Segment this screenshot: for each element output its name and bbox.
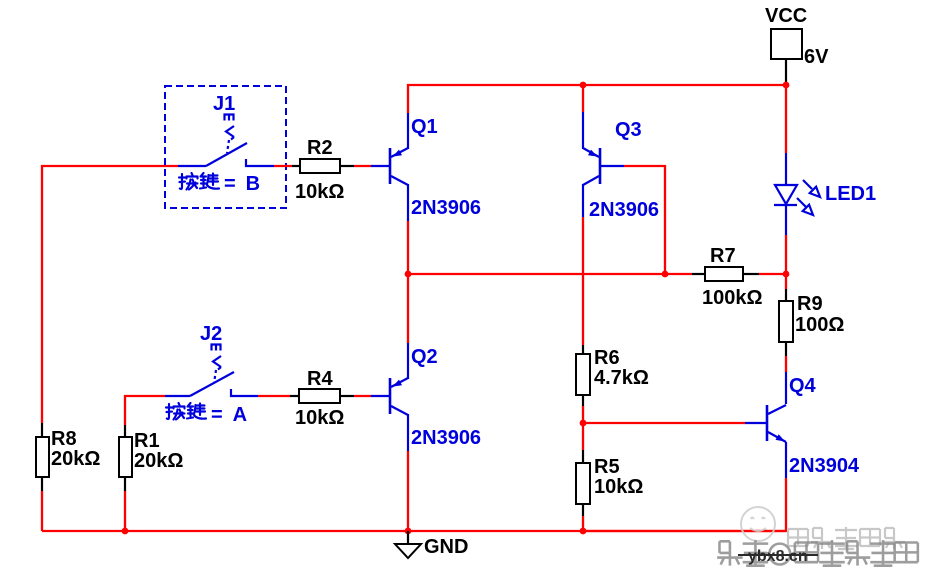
svg-text:2N3906: 2N3906 [589, 199, 659, 221]
svg-text:10kΩ: 10kΩ [295, 181, 344, 203]
junction: top rail / VCC / LED branch [783, 82, 790, 89]
wire: R1 bottom to ground rail [124, 491, 126, 531]
label J2 按键 = A [166, 403, 206, 420]
svg-text:10kΩ: 10kΩ [594, 476, 643, 498]
svg-text:R7: R7 [710, 245, 736, 267]
svg-text:J2: J2 [200, 323, 222, 345]
wire: R8 bottom to ground rail [41, 491, 43, 531]
transistor Q2 (PNP) [371, 343, 408, 451]
switch J1 pushbutton [178, 115, 274, 167]
wire: Q2 collector down to ground rail [407, 451, 409, 531]
svg-text:2N3906: 2N3906 [411, 427, 481, 449]
svg-text:R6: R6 [594, 347, 620, 369]
wire: Q3 base over and down to mid rail [624, 166, 665, 274]
junction: LED column / R7 [783, 271, 790, 278]
svg-text:10kΩ: 10kΩ [295, 407, 344, 429]
transistor Q4 (NPN) [745, 372, 786, 478]
svg-text:J1: J1 [213, 93, 235, 115]
wire: left net from J1 down the left edge [42, 166, 178, 423]
svg-text:2N3906: 2N3906 [411, 197, 481, 219]
transistor Q3 (PNP mirrored) [583, 112, 624, 217]
wire: R2 to Q1 base [354, 165, 371, 167]
wire: J2 branch from R1 top [125, 396, 165, 425]
wire: Q3 emitter up to top rail [582, 85, 584, 112]
svg-text:6V: 6V [804, 46, 829, 68]
junction: ground rail / R5 [580, 528, 587, 535]
wire: R4 to Q2 base [354, 395, 371, 397]
svg-text:= B: = B [224, 173, 260, 195]
wire: mid rail Q1 collector to R7 [408, 273, 692, 275]
wire: J1 to R2 [274, 165, 292, 167]
junction: top rail / Q3 emitter [580, 82, 587, 89]
svg-text:100kΩ: 100kΩ [702, 287, 763, 309]
svg-text:R9: R9 [797, 293, 823, 315]
wire: R6 to R5 through Q4 base node [582, 406, 584, 450]
wire: Q4 emitter down to ground rail corner [583, 478, 786, 531]
resistor R4 [290, 389, 354, 403]
wire: VCC net top rail with Q1 emitter feed [408, 85, 786, 113]
watermark: 头条@硬件大不同 [717, 540, 918, 566]
svg-text:LED1: LED1 [825, 183, 876, 205]
wire: R5 bottom to ground rail [582, 516, 584, 531]
resistor R8 [36, 423, 49, 491]
wire: VCC rail down to LED [785, 85, 787, 153]
switch J2 pushbutton [165, 345, 258, 397]
svg-text:R8: R8 [51, 428, 77, 450]
svg-text:ybx8.cn: ybx8.cn [748, 548, 808, 565]
svg-text:R1: R1 [134, 430, 160, 452]
label J1 按键 = B [179, 173, 219, 190]
resistor R1 [119, 425, 132, 491]
junction: R6/R5/Q4 base [580, 420, 587, 427]
wire: LED cathode down to R7 node and R9 [785, 235, 787, 289]
LED LED1 [774, 153, 820, 235]
resistor R5 [576, 450, 590, 516]
resistor R7 [692, 267, 759, 281]
svg-text:VCC: VCC [765, 5, 807, 27]
svg-text:R2: R2 [307, 137, 333, 159]
svg-text:Q2: Q2 [411, 346, 438, 368]
power symbol VCC [771, 29, 802, 85]
svg-text:Q4: Q4 [789, 375, 817, 397]
resistor R9 [779, 289, 793, 356]
watermark: ybx8.cn [738, 548, 818, 565]
watermark: 电路一点通 [788, 527, 905, 549]
watermark: smiley logo [741, 507, 775, 541]
junction: mid rail / Q1 collector [405, 271, 412, 278]
svg-text:R5: R5 [594, 456, 620, 478]
svg-text:4.7kΩ: 4.7kΩ [594, 367, 649, 389]
svg-text:GND: GND [424, 536, 468, 558]
resistor R2 [292, 159, 354, 173]
junction: ground rail / Q2 collector / GND [405, 528, 412, 535]
svg-text:20kΩ: 20kΩ [51, 448, 100, 470]
junction: mid rail / Q3 base branch [662, 271, 669, 278]
transistor Q1 (PNP) [371, 113, 408, 221]
wire: R9 to Q4 collector [785, 356, 787, 372]
switch J1 dashed selection box [165, 86, 286, 208]
wire: base node to Q4 [583, 422, 745, 424]
wire: J2 to R4 [258, 395, 290, 397]
svg-text:Q3: Q3 [615, 119, 642, 141]
svg-text:R4: R4 [307, 368, 333, 390]
svg-text:100Ω: 100Ω [795, 314, 844, 336]
ground symbol GND [395, 531, 421, 558]
wire: Q3 collector down to R6 (crosses mid rail) [582, 217, 584, 345]
svg-text:= A: = A [211, 404, 247, 426]
wire: R7 to LED column [759, 273, 786, 275]
svg-text:20kΩ: 20kΩ [134, 450, 183, 472]
svg-text:2N3904: 2N3904 [789, 455, 860, 477]
resistor R6 [576, 345, 590, 406]
svg-text:Q1: Q1 [411, 116, 438, 138]
wire: Q1 collector column down to Q2 emitter [407, 221, 409, 343]
wire: ground rail [42, 530, 786, 532]
junction: ground rail / R1 [122, 528, 129, 535]
